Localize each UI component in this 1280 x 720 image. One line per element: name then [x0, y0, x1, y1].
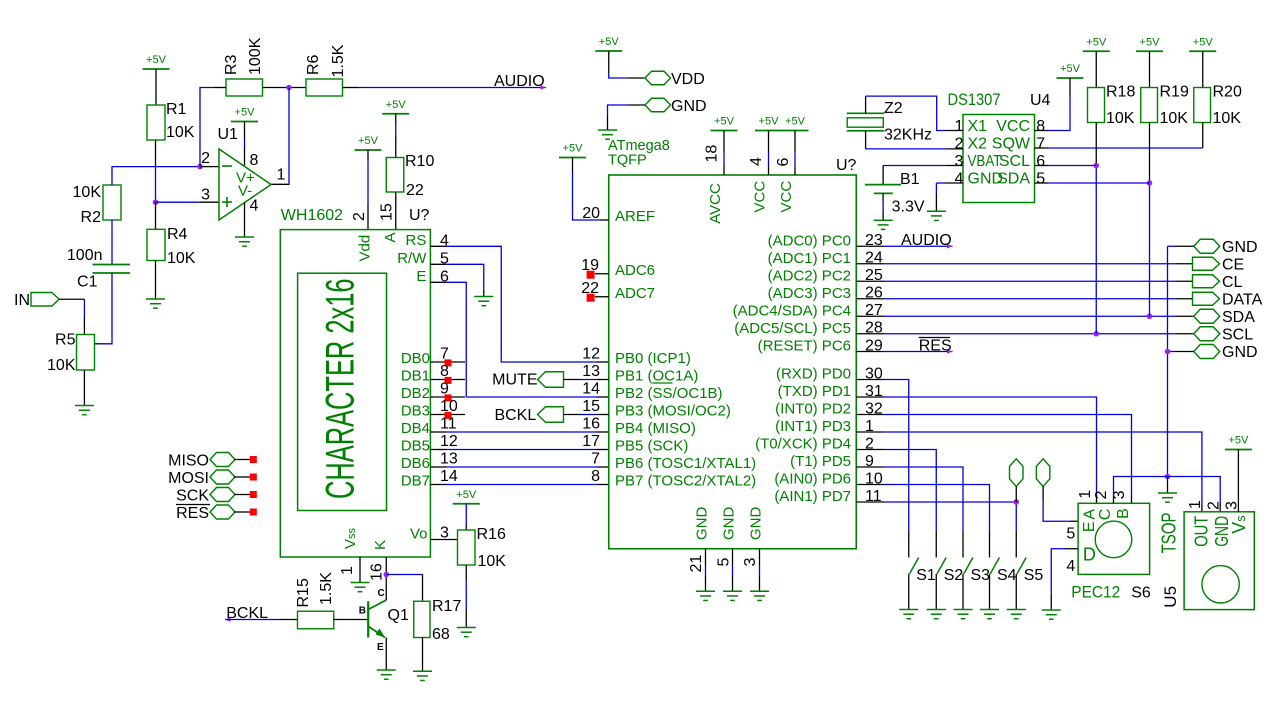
svg-text:(T0/XCK) PD4: (T0/XCK) PD4 — [755, 436, 851, 453]
wire PD2-encoder B — [856, 414, 884, 416]
svg-text:B: B — [1115, 508, 1132, 519]
transistor Q1 — [367, 601, 369, 637]
rotary encoder PEC12 S6 — [1078, 503, 1150, 574]
switch S4 — [990, 558, 999, 574]
node GND bus junction — [1165, 349, 1171, 355]
node SCL junction — [1093, 331, 1099, 337]
svg-text:X2: X2 — [968, 136, 988, 153]
svg-text:U4: U4 — [1030, 92, 1051, 109]
wire X1 — [865, 96, 867, 113]
ground — [696, 591, 715, 600]
svg-text:TQFP: TQFP — [608, 153, 647, 169]
svg-text:R1: R1 — [166, 101, 187, 118]
svg-text:+5V: +5V — [599, 36, 620, 48]
svg-text:5: 5 — [716, 558, 733, 567]
svg-text:+5V: +5V — [456, 489, 477, 501]
wire C1 to R5 — [102, 273, 112, 344]
svg-text:S4: S4 — [997, 567, 1017, 584]
svg-text:3: 3 — [201, 187, 210, 204]
wire — [430, 449, 446, 451]
power +5V (TSOP Vs) — [1225, 435, 1252, 450]
svg-text:+5V: +5V — [1193, 36, 1214, 48]
svg-text:S6: S6 — [1131, 585, 1151, 602]
svg-text:DB6: DB6 — [401, 455, 430, 472]
svg-text:1: 1 — [954, 118, 963, 135]
wire PD1-encoder A — [856, 396, 884, 398]
svg-text:Z2: Z2 — [884, 100, 903, 117]
svg-text:U5: U5 — [1161, 586, 1180, 608]
wire PC2-CL — [856, 280, 884, 282]
svg-text:+5V: +5V — [1086, 36, 1107, 48]
svg-text:U?: U? — [836, 157, 857, 174]
svg-text:SQW: SQW — [992, 136, 1031, 153]
svg-text:R10: R10 — [405, 153, 434, 170]
svg-text:7: 7 — [1036, 136, 1045, 153]
ground (R4) — [146, 299, 165, 308]
svg-text:1: 1 — [339, 566, 356, 575]
svg-text:2: 2 — [201, 150, 210, 167]
svg-text:R2: R2 — [81, 209, 102, 226]
wire pin 8 — [244, 122, 246, 139]
capacitor C1 — [111, 220, 113, 265]
ground (Q1 emitter) — [377, 670, 396, 679]
wire — [430, 484, 446, 486]
switch S1 — [910, 558, 919, 574]
svg-text:+5V: +5V — [1228, 435, 1249, 447]
pin 18 AVCC — [723, 131, 725, 153]
wire output vertical — [271, 88, 289, 185]
ISP pad mark DB2 — [445, 394, 452, 401]
wire PC1-CE — [856, 263, 884, 265]
svg-text:+5V: +5V — [358, 135, 379, 147]
switch S5 — [1017, 558, 1026, 574]
wire — [1167, 477, 1169, 494]
power +5V (U1 pin8) — [231, 107, 258, 122]
node SDA junction — [1147, 313, 1153, 319]
svg-text:22: 22 — [406, 182, 424, 199]
svg-text:(TXD) PD1: (TXD) PD1 — [778, 383, 851, 400]
wire R18-SCL — [1095, 123, 1097, 166]
wire GND bus — [1167, 246, 1169, 476]
wire — [465, 565, 467, 581]
svg-text:DATA: DATA — [1222, 292, 1263, 309]
wire — [395, 114, 397, 124]
ground (S3) — [954, 610, 973, 619]
wire PD5-S3 — [856, 466, 884, 468]
ground (GND port) — [598, 130, 617, 139]
ISP pad mark RES — [250, 509, 257, 516]
resistor R18 — [1095, 51, 1097, 87]
svg-text:Q1: Q1 — [388, 607, 409, 624]
ground (S5) — [1007, 610, 1026, 619]
svg-text:RES: RES — [919, 338, 952, 355]
svg-text:8: 8 — [1036, 118, 1045, 135]
power +5V (VDD port) — [595, 36, 622, 51]
wire PD3-TSOP OUT — [856, 431, 884, 433]
wire AUDIO (PC0) — [856, 245, 884, 247]
svg-text:2: 2 — [1093, 490, 1110, 499]
svg-text:AREF: AREF — [615, 208, 655, 225]
svg-text:10K: 10K — [73, 184, 102, 201]
svg-text:U?: U? — [409, 207, 430, 224]
svg-text:3: 3 — [742, 558, 759, 567]
wire — [882, 193, 884, 201]
wire — [564, 414, 580, 416]
wire pin 15 — [395, 192, 397, 230]
svg-text:+5V: +5V — [235, 107, 256, 119]
svg-text:12: 12 — [440, 433, 458, 450]
svg-text:13: 13 — [440, 451, 458, 468]
wire R3 left loop — [214, 87, 226, 89]
wire PC4-SDA — [856, 315, 884, 317]
resistor R15 — [298, 611, 334, 629]
svg-text:+5V: +5V — [714, 116, 735, 128]
svg-text:68: 68 — [432, 626, 450, 643]
svg-text:1: 1 — [1187, 500, 1204, 509]
svg-text:E: E — [377, 642, 384, 653]
ground (R16) — [457, 628, 476, 637]
wire E to PB2 — [446, 282, 466, 397]
power +5V (VCC 4) — [755, 116, 782, 131]
svg-text:(T1) PD5: (T1) PD5 — [790, 453, 851, 470]
svg-text:B: B — [359, 606, 366, 617]
resistor R3 — [226, 79, 263, 96]
ISP pad mark MOSI — [250, 474, 257, 481]
svg-text:13: 13 — [582, 363, 600, 380]
svg-text:+5V: +5V — [785, 116, 806, 128]
svg-text:DB2: DB2 — [401, 385, 430, 402]
svg-text:18: 18 — [703, 145, 720, 163]
node pin3 junction — [153, 199, 159, 205]
svg-text:(ADC4/SDA) PC4: (ADC4/SDA) PC4 — [733, 302, 851, 319]
svg-text:+5V: +5V — [146, 54, 167, 66]
wire PD4-S2 — [856, 449, 884, 451]
power +5V (R1) — [143, 54, 170, 69]
svg-text:6: 6 — [775, 158, 792, 167]
wire — [155, 261, 157, 300]
svg-text:ADC6: ADC6 — [615, 262, 655, 279]
ground (B1) — [874, 220, 893, 229]
svg-text:32KHz: 32KHz — [884, 127, 932, 144]
port (vertical hexagon 2) — [1036, 459, 1050, 487]
svg-text:+5V: +5V — [759, 116, 780, 128]
svg-text:14: 14 — [582, 381, 600, 398]
wire R19-SDA — [1149, 123, 1151, 184]
ground (encoder D) — [1042, 610, 1061, 619]
wire pin 4 — [244, 203, 246, 237]
svg-text:100K: 100K — [247, 37, 264, 75]
svg-text:+5V: +5V — [1140, 36, 1161, 48]
svg-text:R4: R4 — [167, 226, 188, 243]
svg-text:(INT0) PD2: (INT0) PD2 — [775, 401, 851, 418]
svg-text:21: 21 — [688, 555, 705, 573]
resistor R2 — [103, 185, 121, 220]
wire R20-SQW — [1202, 123, 1204, 149]
wire PD0-S1 — [856, 379, 884, 381]
wire — [1237, 450, 1239, 512]
svg-text:B1: B1 — [900, 171, 920, 188]
svg-text:10K: 10K — [1213, 110, 1242, 127]
svg-text:8: 8 — [250, 152, 259, 169]
power +5V (AVCC 18) — [711, 116, 738, 131]
svg-text:1.5K: 1.5K — [330, 44, 347, 77]
svg-text:PEC12: PEC12 — [1071, 583, 1120, 602]
svg-text:MISO: MISO — [168, 452, 209, 469]
port CE — [1193, 257, 1220, 270]
wire VCC pin8 — [1069, 78, 1071, 97]
svg-text:RS: RS — [406, 232, 427, 249]
svg-text:4: 4 — [748, 157, 765, 166]
wire emitter — [385, 638, 387, 671]
svg-text:20: 20 — [582, 205, 600, 222]
svg-text:(ADC3) PC3: (ADC3) PC3 — [768, 285, 851, 302]
svg-text:Vdd: Vdd — [357, 235, 374, 262]
wire — [1015, 486, 1017, 502]
svg-text:PB1 (OC1A): PB1 (OC1A) — [615, 368, 698, 385]
svg-text:10K: 10K — [47, 357, 76, 374]
ground (Vss) — [351, 583, 370, 592]
resistor R5 — [77, 335, 95, 371]
svg-text:BCKL: BCKL — [494, 407, 536, 424]
svg-text:S2: S2 — [944, 567, 964, 584]
svg-text:R3: R3 — [223, 54, 240, 75]
node GND bus junction 2 — [1165, 474, 1171, 480]
svg-text:S1: S1 — [916, 567, 936, 584]
resistor R1 — [147, 105, 165, 140]
wire — [59, 298, 84, 300]
svg-text:17: 17 — [582, 433, 600, 450]
svg-text:SDA: SDA — [997, 171, 1030, 188]
svg-text:X1: X1 — [968, 118, 988, 135]
port DATA — [1193, 292, 1220, 305]
svg-text:SCL: SCL — [999, 153, 1030, 170]
svg-text:GND: GND — [1222, 239, 1258, 256]
ISP pad mark DB1 — [445, 377, 452, 384]
wire — [564, 379, 580, 381]
power +5V (VCC 6) — [782, 116, 809, 131]
display area box — [298, 273, 387, 510]
wire — [155, 140, 157, 167]
wire — [465, 504, 467, 525]
svg-text:(RESET) PC6: (RESET) PC6 — [758, 338, 851, 355]
wire — [155, 69, 157, 105]
svg-text:R20: R20 — [1213, 84, 1242, 101]
svg-text:4: 4 — [954, 171, 963, 188]
svg-text:V-: V- — [238, 183, 252, 200]
wire PC5-SCL — [856, 333, 884, 335]
pin 4 VCC — [768, 131, 770, 153]
svg-text:GND: GND — [747, 507, 764, 541]
svg-text:S5: S5 — [1024, 567, 1044, 584]
wire — [430, 431, 446, 433]
svg-text:ADC7: ADC7 — [615, 285, 655, 302]
wire pin3 — [156, 201, 200, 203]
port VDD — [608, 51, 610, 73]
wire to encoder E — [1042, 486, 1044, 500]
wire D to ground — [1065, 548, 1078, 550]
svg-text:(ADC1) PC1: (ADC1) PC1 — [768, 250, 851, 267]
svg-text:2: 2 — [1206, 501, 1223, 510]
svg-text:DB1: DB1 — [401, 368, 430, 385]
ground (R/W) — [474, 297, 493, 306]
svg-text:16: 16 — [582, 416, 600, 433]
svg-text:DB0: DB0 — [401, 350, 430, 367]
svg-text:8: 8 — [591, 468, 600, 485]
svg-text:VCC: VCC — [752, 181, 769, 213]
svg-text:K: K — [372, 540, 389, 550]
port SCL — [1194, 327, 1220, 341]
svg-text:VCC: VCC — [996, 118, 1030, 135]
pin 6 VCC — [794, 131, 796, 153]
svg-text:3: 3 — [954, 153, 963, 170]
svg-text:R18: R18 — [1106, 84, 1135, 101]
svg-text:+5V: +5V — [1060, 63, 1081, 75]
svg-text:DB3: DB3 — [401, 403, 430, 420]
svg-text:GND: GND — [1222, 344, 1258, 361]
ISP pad mark MISO — [250, 456, 257, 463]
svg-text:IN: IN — [14, 292, 30, 309]
svg-text:CE: CE — [1222, 257, 1244, 274]
switch S3 — [964, 558, 973, 574]
svg-text:11: 11 — [440, 416, 457, 433]
ground (S4) — [980, 610, 999, 619]
svg-text:10K: 10K — [167, 250, 196, 267]
wire AUDIO net — [343, 87, 359, 89]
wire DS GND pin4 — [946, 182, 963, 184]
power +5V (WH Vdd) — [355, 135, 382, 150]
power +5V (R18) — [1083, 36, 1110, 51]
svg-text:2: 2 — [351, 212, 368, 221]
svg-text:S3: S3 — [971, 567, 991, 584]
wire PD7-S5 — [856, 501, 884, 503]
svg-text:R17: R17 — [432, 598, 461, 615]
svg-text:D: D — [1083, 545, 1096, 565]
svg-text:U1: U1 — [218, 126, 239, 143]
svg-text:10K: 10K — [1160, 110, 1189, 127]
node output junction — [286, 85, 292, 91]
ground (bus) — [1158, 493, 1177, 502]
power +5V (AREF) — [559, 143, 586, 158]
port (vertical hexagon 1) — [1010, 459, 1024, 487]
svg-text:10K: 10K — [1106, 110, 1135, 127]
wire — [422, 638, 424, 672]
port GND — [645, 98, 671, 112]
wire R3 right — [263, 87, 307, 89]
wire pin2 stub — [200, 166, 219, 168]
svg-text:SCL: SCL — [1222, 327, 1253, 344]
resistor R17 — [414, 601, 430, 637]
wire R2 top to inverting input — [112, 167, 200, 185]
svg-text:VCC: VCC — [778, 181, 795, 213]
wire C common to GND — [1113, 495, 1115, 503]
svg-text:Vss: Vss — [342, 527, 359, 549]
svg-text:R6: R6 — [305, 54, 322, 75]
svg-text:6: 6 — [1036, 153, 1045, 170]
svg-text:(ADC5/SCL) PC5: (ADC5/SCL) PC5 — [734, 320, 851, 337]
svg-text:(ADC0) PC0: (ADC0) PC0 — [768, 232, 851, 249]
resistor R20 — [1202, 51, 1204, 87]
svg-text:(INT1) PD3: (INT1) PD3 — [775, 418, 851, 435]
svg-text:CHARACTER 2x16: CHARACTER 2x16 — [319, 279, 363, 500]
svg-text:R15: R15 — [295, 578, 312, 607]
wire AREF — [572, 158, 574, 173]
resistor R16 — [458, 530, 476, 565]
svg-text:GND: GND — [671, 98, 707, 115]
svg-text:MUTE: MUTE — [492, 372, 537, 389]
svg-text:PB7 (TOSC2/XTAL2): PB7 (TOSC2/XTAL2) — [615, 473, 756, 490]
ISP pad mark DB3 — [445, 412, 452, 419]
svg-text:(ADC2) PC2: (ADC2) PC2 — [768, 267, 851, 284]
svg-text:10K: 10K — [166, 124, 195, 141]
svg-text:4: 4 — [250, 198, 259, 215]
switch S2 — [937, 558, 946, 574]
svg-text:AVCC: AVCC — [707, 183, 724, 224]
svg-text:PB2 (SS/OC1B): PB2 (SS/OC1B) — [615, 385, 723, 402]
svg-text:2: 2 — [954, 136, 963, 153]
svg-text:15: 15 — [582, 398, 600, 415]
wire PD6-S4 — [856, 484, 884, 486]
svg-text:(AIN0) PD6: (AIN0) PD6 — [774, 471, 851, 488]
svg-text:R/W: R/W — [397, 250, 427, 267]
resistor R4 — [155, 202, 157, 229]
svg-text:CL: CL — [1222, 274, 1243, 291]
ground — [723, 591, 742, 600]
svg-text:DB7: DB7 — [401, 473, 430, 490]
svg-text:MOSI: MOSI — [168, 470, 209, 487]
svg-text:1: 1 — [1077, 490, 1094, 499]
port GND (bottom) — [1194, 345, 1220, 359]
node PD7 junction — [1013, 499, 1019, 505]
ground (S1) — [899, 610, 918, 619]
svg-text:GND: GND — [693, 507, 710, 541]
svg-text:C1: C1 — [77, 274, 98, 291]
svg-text:PB0 (ICP1): PB0 (ICP1) — [615, 350, 691, 367]
node R18/pin6 junction — [1093, 163, 1099, 169]
wire RS to PB0 — [446, 246, 597, 362]
svg-text:WH1602: WH1602 — [281, 207, 343, 224]
svg-text:DB5: DB5 — [401, 438, 430, 455]
ground (R17) — [413, 671, 432, 680]
svg-text:4: 4 — [1066, 558, 1075, 575]
svg-text:SCK: SCK — [176, 487, 209, 504]
svg-text:16: 16 — [369, 563, 386, 581]
svg-text:(AIN1) PD7: (AIN1) PD7 — [774, 488, 851, 505]
ISP pad mark SCK — [250, 491, 257, 498]
wire R/W to ground — [446, 264, 484, 290]
svg-text:DS1307: DS1307 — [948, 90, 1001, 109]
svg-text:R16: R16 — [477, 526, 506, 543]
svg-text:PB6 (TOSC1/XTAL1): PB6 (TOSC1/XTAL1) — [615, 455, 756, 472]
svg-text:E: E — [416, 268, 426, 285]
wire VBAT — [946, 165, 963, 167]
svg-text:(RXD) PD0: (RXD) PD0 — [776, 366, 851, 383]
wire SDA pin5 — [1035, 182, 1049, 184]
wire base — [334, 619, 368, 621]
power +5V (R16) — [453, 489, 480, 504]
wire SCL pin6 — [1035, 165, 1049, 167]
svg-text:A: A — [382, 232, 399, 242]
wire X2 — [865, 131, 867, 149]
wire — [628, 104, 645, 106]
svg-text:PB5 (SCK): PB5 (SCK) — [615, 438, 688, 455]
ground (S2) — [927, 610, 946, 619]
svg-text:5: 5 — [1036, 171, 1045, 188]
svg-text:C: C — [378, 588, 385, 599]
svg-text:TSOP: TSOP — [1159, 512, 1181, 553]
svg-text:+5V: +5V — [386, 99, 407, 111]
port GND (top) — [1194, 239, 1220, 253]
svg-text:OUT: OUT — [1192, 516, 1212, 547]
